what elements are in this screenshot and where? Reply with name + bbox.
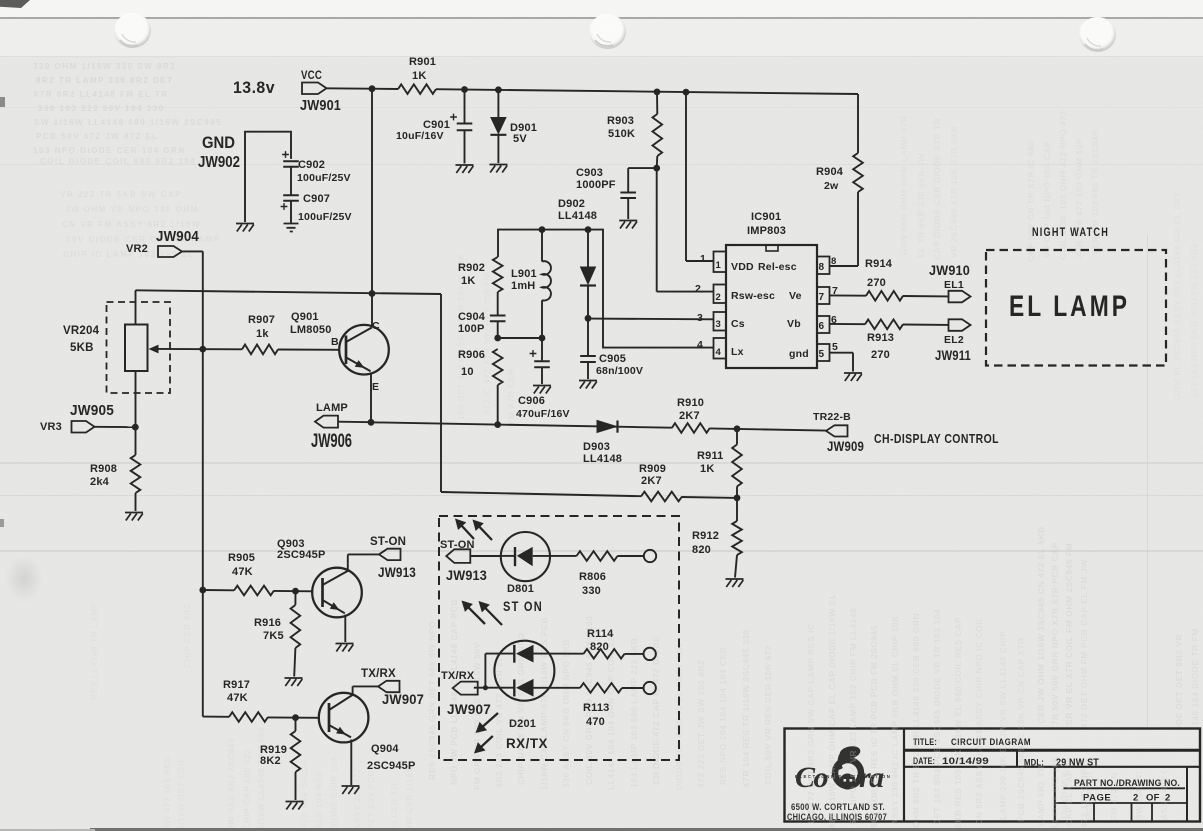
dual LED D201 xyxy=(474,641,555,730)
resistor R909 2K7 xyxy=(639,463,682,501)
node junction C904/R906 xyxy=(494,335,501,342)
capacitor C901 10uF/16V xyxy=(396,90,472,164)
svg-text:TX/RX: TX/RX xyxy=(361,668,396,680)
svg-text:100uF/25V: 100uF/25V xyxy=(298,211,352,223)
svg-text:R912: R912 xyxy=(692,530,719,542)
wire to IC pin3 Cs xyxy=(588,318,714,321)
terminal circle R114 xyxy=(644,648,656,660)
svg-text:R909: R909 xyxy=(639,463,666,475)
wire VCC rail top xyxy=(327,88,859,94)
potentiometer VR204 5KB xyxy=(63,302,170,393)
IC pin 3 Cs xyxy=(697,312,745,331)
svg-text:R114: R114 xyxy=(587,628,614,640)
wire R905 row xyxy=(203,590,313,591)
resistor R917 47K xyxy=(223,679,268,722)
svg-text:VDD: VDD xyxy=(731,261,754,273)
svg-text:2: 2 xyxy=(716,292,721,303)
capacitor C905 68n/100V xyxy=(580,318,643,379)
IC U901 IMP803 body xyxy=(726,211,817,368)
svg-text:R113: R113 xyxy=(583,702,610,714)
terminal circle R113 xyxy=(644,682,656,694)
svg-text:2K7: 2K7 xyxy=(679,410,700,422)
svg-text:470: 470 xyxy=(586,716,605,728)
svg-text:C905: C905 xyxy=(599,353,626,365)
svg-text:C904: C904 xyxy=(458,311,486,323)
svg-text:1K: 1K xyxy=(700,463,714,475)
svg-text:C903: C903 xyxy=(576,167,603,179)
svg-text:R917: R917 xyxy=(223,679,250,691)
ground under R912 xyxy=(726,579,744,587)
svg-text:1: 1 xyxy=(700,253,706,265)
resistor R903 510K xyxy=(607,92,662,168)
wire R909 rail xyxy=(441,492,737,498)
node junction wiper/JW904 rail xyxy=(199,346,206,353)
node junction L901 top xyxy=(539,226,546,233)
svg-text:100P: 100P xyxy=(458,323,485,335)
connector LAMP JW906 xyxy=(311,402,371,452)
ground pin5 xyxy=(844,373,862,381)
svg-text:510K: 510K xyxy=(608,128,635,140)
node junction R905/R916/Q903 base xyxy=(292,588,299,595)
svg-text:R913: R913 xyxy=(867,332,894,344)
transistor Q903 2SC945P xyxy=(277,538,379,642)
svg-text:4: 4 xyxy=(716,347,722,358)
resistor R904 2w xyxy=(816,94,863,266)
capacitor C902 100uF/25V xyxy=(282,151,351,195)
svg-text:IMP803: IMP803 xyxy=(747,225,786,237)
wire mid rail (VR204 top to x441) xyxy=(136,290,442,294)
wire R913 to EL2 xyxy=(903,324,949,326)
svg-text:D201: D201 xyxy=(509,718,536,730)
connector TX/RX JW907 (Q904) xyxy=(361,668,424,707)
svg-text:OF: OF xyxy=(1146,793,1160,804)
svg-text:JW902: JW902 xyxy=(198,154,240,171)
node junction R909/R911/R912 xyxy=(734,495,741,502)
capacitor C904 100P xyxy=(458,311,506,338)
transistor Q901 LM8050 xyxy=(290,294,389,423)
resistor R913 270 xyxy=(865,320,903,362)
svg-text:2w: 2w xyxy=(824,180,839,192)
connector TR22-B JW909 xyxy=(813,411,864,454)
ground under R916 xyxy=(285,678,303,686)
ground under Q903 emitter xyxy=(336,644,354,652)
svg-text:820: 820 xyxy=(590,641,609,653)
svg-text:R906: R906 xyxy=(458,349,485,361)
node junction R906/LAMP rail xyxy=(494,421,501,428)
svg-text:13.8v: 13.8v xyxy=(233,78,275,97)
svg-text:270: 270 xyxy=(867,277,886,289)
resistor R912 820 xyxy=(692,498,742,578)
svg-text:Q901: Q901 xyxy=(291,311,319,323)
resistor R916 7K5 xyxy=(254,591,300,676)
resistor R919 8K2 xyxy=(260,718,300,800)
svg-text:EL2: EL2 xyxy=(944,334,964,346)
svg-text:RX/TX: RX/TX xyxy=(506,736,548,751)
svg-text:R916: R916 xyxy=(254,617,281,629)
svg-text:47K: 47K xyxy=(232,566,253,578)
wire pin7 to R914 xyxy=(830,294,867,296)
svg-text:LL4148: LL4148 xyxy=(583,453,622,465)
svg-text:Ve: Ve xyxy=(789,290,802,302)
svg-text:10: 10 xyxy=(461,366,474,378)
svg-text:1: 1 xyxy=(716,260,722,271)
svg-text:2SC945P: 2SC945P xyxy=(367,760,416,772)
connector EL2 JW911 xyxy=(935,319,971,363)
svg-text:R904: R904 xyxy=(816,166,844,178)
IC pin 8 xyxy=(817,256,836,274)
svg-text:10uF/16V: 10uF/16V xyxy=(396,130,444,142)
IC pin 6 Vb xyxy=(787,314,837,333)
svg-text:LAMP: LAMP xyxy=(316,402,348,414)
capacitor C907 100uF/25V xyxy=(281,193,352,223)
svg-text:47K: 47K xyxy=(227,692,248,704)
node junction C901 xyxy=(461,86,468,93)
terminal circle R806 xyxy=(644,550,656,562)
node junction JW907/D201 xyxy=(483,685,488,690)
node junction Q901 emitter / LAMP xyxy=(368,419,375,426)
svg-text:2: 2 xyxy=(695,283,701,295)
svg-text:7K5: 7K5 xyxy=(263,630,284,642)
svg-text:C: C xyxy=(372,320,380,332)
ground JW902 xyxy=(236,224,254,232)
capacitor C906 470uF/16V xyxy=(516,338,570,420)
svg-text:JW907: JW907 xyxy=(447,701,491,717)
resistor R905 47K xyxy=(228,552,274,595)
resistor R910 2K7 xyxy=(672,397,710,433)
node junction R917/R919/Q904 base xyxy=(292,714,299,721)
svg-text:LM8050: LM8050 xyxy=(290,324,332,336)
Cobra logo xyxy=(787,744,890,822)
wire junction row xyxy=(498,337,542,339)
svg-text:IC901: IC901 xyxy=(751,211,781,223)
svg-text:2SC945P: 2SC945P xyxy=(277,549,326,561)
inductor L901 1mH xyxy=(511,230,551,338)
svg-text:R903: R903 xyxy=(607,115,634,127)
svg-text:JW913: JW913 xyxy=(446,567,487,583)
light arrows RX/TX down-left xyxy=(474,713,498,754)
svg-text:TR22-B: TR22-B xyxy=(813,411,851,423)
resistor R902 1K xyxy=(458,257,503,315)
svg-text:C906: C906 xyxy=(518,395,545,407)
svg-text:B: B xyxy=(331,336,339,348)
wire top rail to IC pin1 xyxy=(686,92,714,261)
wire LAMP rail xyxy=(371,422,826,430)
svg-text:Cs: Cs xyxy=(731,318,745,330)
resistor R113 470 xyxy=(534,683,644,728)
svg-text:6: 6 xyxy=(819,321,825,332)
svg-text:820: 820 xyxy=(692,544,711,556)
EL LAMP dashed box xyxy=(986,250,1166,366)
resistor R906 10 xyxy=(458,349,503,425)
IC pin 7 Ve xyxy=(789,285,838,304)
svg-text:470uF/16V: 470uF/16V xyxy=(516,408,570,420)
node junction VCC drop / mid rail / Q901 collector xyxy=(369,290,376,297)
connector JW913 inside box xyxy=(440,539,487,583)
ground under C907 (earth) xyxy=(284,224,299,232)
svg-text:3: 3 xyxy=(716,319,721,330)
wire JW913 to D801 xyxy=(470,555,501,557)
node junction JW905/pot bottom xyxy=(132,424,139,431)
svg-text:C902: C902 xyxy=(298,159,325,171)
svg-text:JW901: JW901 xyxy=(300,97,341,114)
capacitor C903 1000PF xyxy=(576,167,657,219)
svg-text:EL1: EL1 xyxy=(944,279,964,291)
svg-text:1000PF: 1000PF xyxy=(576,179,616,191)
node junction top rail pin1 xyxy=(683,89,690,96)
svg-text:3: 3 xyxy=(697,312,703,324)
wire R917 row xyxy=(203,717,319,718)
svg-text:5: 5 xyxy=(832,341,838,353)
svg-text:2K7: 2K7 xyxy=(641,475,662,487)
svg-text:R901: R901 xyxy=(409,56,436,68)
svg-text:JW905: JW905 xyxy=(70,402,114,419)
connector JW905 VR3 xyxy=(40,402,135,433)
svg-text:100uF/25V: 100uF/25V xyxy=(297,172,351,184)
node junction D901 xyxy=(495,86,502,93)
wire VR204 bottom to R908 xyxy=(135,371,137,455)
ground under Q904 emitter xyxy=(342,786,360,794)
svg-text:JW909: JW909 xyxy=(827,438,864,454)
resistor R907 1k xyxy=(242,314,278,354)
svg-text:D801: D801 xyxy=(507,583,534,595)
svg-text:R806: R806 xyxy=(579,571,606,583)
light arrows near ST ON label xyxy=(462,601,503,626)
IC pin 4 Lx xyxy=(697,338,744,359)
resistor R911 1K xyxy=(697,429,742,498)
svg-text:1mH: 1mH xyxy=(511,280,535,292)
svg-text:Rel-esc: Rel-esc xyxy=(758,261,797,273)
svg-text:ST-ON: ST-ON xyxy=(370,536,406,548)
svg-text:TX/RX: TX/RX xyxy=(441,670,475,682)
svg-text:1K: 1K xyxy=(412,70,426,82)
node junction JW904-rail/R905 xyxy=(199,587,206,594)
connector ST-ON JW913 (Q903) xyxy=(370,536,416,580)
diode D903 LL4148 xyxy=(583,420,622,465)
connector JW907 inside box xyxy=(441,670,491,717)
node junction D902/C905/pin3 xyxy=(585,315,592,322)
svg-text:R910: R910 xyxy=(677,397,704,409)
svg-text:D902: D902 xyxy=(558,198,585,210)
svg-text:JW910: JW910 xyxy=(929,263,970,278)
ground under C901 xyxy=(456,165,474,173)
svg-text:R905: R905 xyxy=(228,552,255,564)
svg-text:E: E xyxy=(372,381,379,393)
svg-text:Lx: Lx xyxy=(731,346,744,358)
svg-text:8: 8 xyxy=(819,262,825,273)
svg-text:68n/100V: 68n/100V xyxy=(596,365,643,377)
svg-text:NIGHT WATCH: NIGHT WATCH xyxy=(1032,227,1109,239)
connector JW904 VR2 xyxy=(126,228,203,257)
wire VR204 top lead xyxy=(135,290,137,324)
IC pin 5 gnd xyxy=(789,341,838,361)
svg-text:gnd: gnd xyxy=(789,348,809,360)
LED D801 xyxy=(501,532,577,595)
svg-text:Vb: Vb xyxy=(787,318,801,330)
ground under C906 xyxy=(533,386,551,394)
svg-text:EL LAMP: EL LAMP xyxy=(1009,290,1130,323)
wire pin5 to ground xyxy=(830,353,854,372)
svg-text:VR204: VR204 xyxy=(63,325,100,337)
ground under D901 xyxy=(489,165,507,173)
wire JW904 rail vertical xyxy=(202,251,204,716)
IC pin 2 Rsw-esc xyxy=(695,283,775,303)
svg-text:1k: 1k xyxy=(256,328,269,340)
node junction R903/C903 xyxy=(653,165,660,172)
svg-text:5V: 5V xyxy=(513,133,527,145)
svg-text:5KB: 5KB xyxy=(70,342,94,354)
wire x441 vertical xyxy=(440,294,442,492)
diode D902 LL4148 sub-circuit top rail xyxy=(498,230,714,348)
wire R914 to EL1 xyxy=(903,295,949,297)
svg-text:L901: L901 xyxy=(511,268,537,280)
node junction D902 top xyxy=(585,226,592,233)
ground under C903 xyxy=(619,221,637,229)
resistor R914 270 xyxy=(865,258,903,301)
svg-text:JW904: JW904 xyxy=(156,228,199,245)
svg-text:GND: GND xyxy=(202,134,235,152)
wire VCC drop to Q901 collector xyxy=(371,89,373,294)
svg-text:Q904: Q904 xyxy=(371,743,399,755)
connector JW901 (VCC input) xyxy=(300,70,341,114)
svg-text:7: 7 xyxy=(819,292,825,303)
ground under R919 xyxy=(286,802,304,810)
title block xyxy=(785,729,1201,822)
diode D902 LL4148 xyxy=(558,198,597,318)
svg-text:8: 8 xyxy=(831,256,836,267)
diode D901 5V zener xyxy=(490,90,537,163)
svg-text:D903: D903 xyxy=(583,441,610,453)
svg-text:R911: R911 xyxy=(697,450,724,462)
svg-text:270: 270 xyxy=(871,349,890,361)
svg-text:C907: C907 xyxy=(303,193,330,205)
node junction top rail R903 xyxy=(654,89,661,96)
wire pin6 to R913 xyxy=(830,323,866,325)
svg-text:29 NW ST: 29 NW ST xyxy=(1056,757,1099,769)
svg-text:JW913: JW913 xyxy=(378,564,416,580)
svg-text:1K: 1K xyxy=(461,275,475,287)
connector EL1 JW910 xyxy=(929,263,971,302)
LED indicator dashed box xyxy=(439,516,679,760)
resistor R901 1K xyxy=(398,56,436,94)
ground under C905 xyxy=(579,381,597,389)
svg-text:2k4: 2k4 xyxy=(90,476,110,488)
node GND label xyxy=(198,134,240,171)
svg-text:JW906: JW906 xyxy=(311,431,352,452)
svg-text:R914: R914 xyxy=(865,258,893,270)
wire GND jumper to C902 xyxy=(245,132,291,222)
node junction R910/R911 xyxy=(734,425,741,432)
ground under R908 xyxy=(125,513,143,521)
svg-text:Rsw-esc: Rsw-esc xyxy=(731,290,775,302)
svg-text:R907: R907 xyxy=(248,314,275,326)
wire R907 to Q901 base xyxy=(278,349,340,351)
svg-text:R908: R908 xyxy=(90,463,117,475)
wire wiper to R907 xyxy=(159,348,243,350)
IC pin 1 VDD xyxy=(700,252,797,274)
svg-text:R902: R902 xyxy=(458,262,485,274)
transistor Q904 2SC945P xyxy=(319,686,416,785)
svg-text:ST ON: ST ON xyxy=(503,599,543,614)
svg-text:5: 5 xyxy=(819,349,825,360)
svg-text:VR3: VR3 xyxy=(40,421,62,433)
svg-text:VR2: VR2 xyxy=(126,243,148,255)
node junction VCC/R901 xyxy=(369,85,376,92)
light arrows above D801 xyxy=(455,519,492,541)
svg-text:VCC: VCC xyxy=(301,70,322,82)
svg-text:JW911: JW911 xyxy=(935,348,971,363)
svg-text:8K2: 8K2 xyxy=(260,755,281,767)
node VCC label 13.8v xyxy=(233,78,275,97)
wire R903 junction down to IC pin2 xyxy=(657,168,714,292)
resistor R908 2k4 xyxy=(90,455,140,511)
svg-text:CH-DISPLAY CONTROL: CH-DISPLAY CONTROL xyxy=(874,432,999,446)
resistor R806 330 xyxy=(577,551,644,597)
resistor R114 820 xyxy=(534,628,644,659)
node junction L901/C906 xyxy=(539,335,546,342)
title block texts xyxy=(913,737,1180,804)
svg-text:4: 4 xyxy=(697,339,703,351)
svg-text:JW907: JW907 xyxy=(382,691,424,707)
svg-text:330: 330 xyxy=(582,585,601,597)
svg-text:LL4148: LL4148 xyxy=(558,210,597,222)
